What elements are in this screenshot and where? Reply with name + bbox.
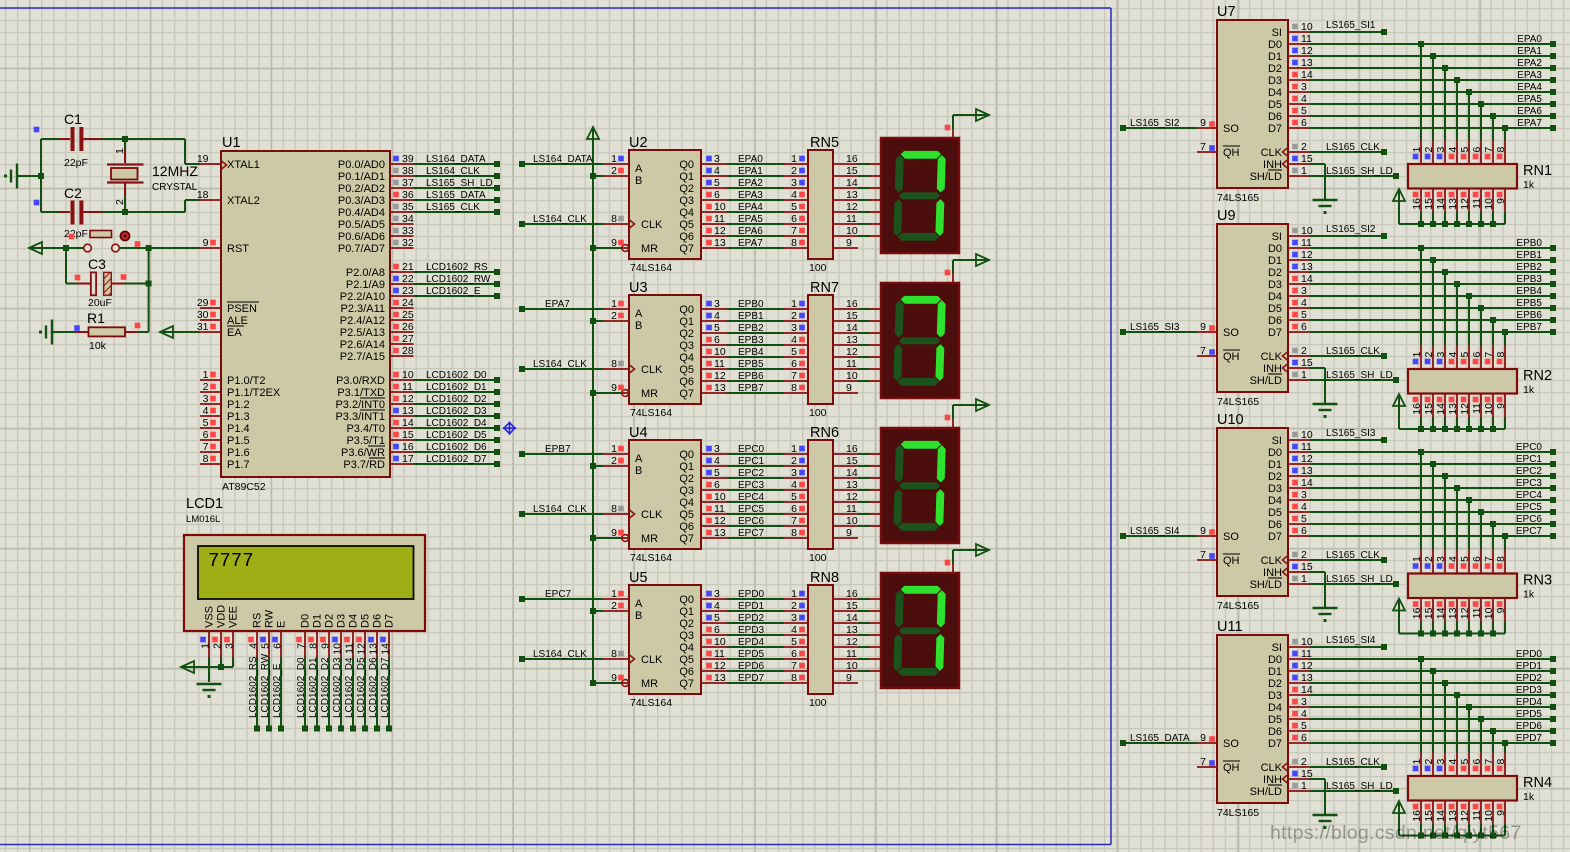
svg-text:10: 10 xyxy=(402,369,414,381)
svg-text:14: 14 xyxy=(402,417,414,429)
svg-text:10: 10 xyxy=(1483,198,1495,210)
wire U9.INH to ground xyxy=(1310,368,1325,403)
svg-text:1: 1 xyxy=(611,298,617,310)
wire net LS165_SH_LD at U11 xyxy=(1310,781,1399,794)
svg-text:4: 4 xyxy=(1301,297,1307,309)
svg-text:11: 11 xyxy=(846,213,857,225)
svg-text:11: 11 xyxy=(846,648,857,660)
svg-text:Q2: Q2 xyxy=(679,183,694,195)
svg-text:EPC6: EPC6 xyxy=(738,516,765,527)
svg-text:14: 14 xyxy=(846,177,858,189)
svg-text:EPD4: EPD4 xyxy=(738,637,765,648)
svg-text:13: 13 xyxy=(714,237,726,249)
svg-text:LCD1602_D0: LCD1602_D0 xyxy=(426,370,487,381)
wire net LS165_SI2 to U7.SO xyxy=(1120,118,1197,131)
resistor network RN7 100 xyxy=(808,280,858,419)
svg-text:EPB2: EPB2 xyxy=(1516,262,1542,273)
svg-text:P3.1/TXD: P3.1/TXD xyxy=(337,387,385,399)
svg-text:A: A xyxy=(635,453,643,465)
wire net EPA2 xyxy=(727,177,808,189)
svg-text:EPB3: EPB3 xyxy=(1516,274,1542,285)
svg-text:12: 12 xyxy=(1459,198,1471,210)
svg-text:QH: QH xyxy=(1223,762,1240,774)
svg-text:U11: U11 xyxy=(1217,619,1243,635)
wire net LS165_SI4 at U11.SI xyxy=(1310,635,1387,650)
svg-text:B: B xyxy=(635,610,642,622)
svg-text:10: 10 xyxy=(332,643,344,655)
svg-text:SO: SO xyxy=(1223,531,1239,543)
svg-text:EA: EA xyxy=(227,327,242,339)
svg-text:1k: 1k xyxy=(1523,384,1535,396)
terminal arrow (reset net) xyxy=(29,242,42,254)
svg-text:EPA3: EPA3 xyxy=(738,190,763,201)
svg-text:B: B xyxy=(635,320,642,332)
svg-text:P0.4/AD4: P0.4/AD4 xyxy=(338,207,385,219)
svg-text:P3.5/T1: P3.5/T1 xyxy=(346,435,385,447)
svg-text:AT89C52: AT89C52 xyxy=(222,481,266,493)
svg-text:74LS165: 74LS165 xyxy=(1217,600,1259,612)
svg-text:D3: D3 xyxy=(1268,483,1282,495)
svg-text:P1.4: P1.4 xyxy=(227,423,250,435)
svg-text:EPD2: EPD2 xyxy=(738,613,765,624)
svg-text:RN6: RN6 xyxy=(810,425,839,441)
wire net EPA0 xyxy=(1310,34,1556,141)
svg-text:74LS165: 74LS165 xyxy=(1217,807,1259,819)
wire net EPB5 xyxy=(1310,298,1556,346)
svg-text:RN2: RN2 xyxy=(1523,368,1552,384)
svg-text:100: 100 xyxy=(809,262,827,274)
resistor network RN8 100 xyxy=(808,570,858,709)
svg-text:LS165_SI1: LS165_SI1 xyxy=(1326,20,1376,31)
svg-text:ALE: ALE xyxy=(227,315,248,327)
wire net LS165_CLK at U7 xyxy=(1310,142,1387,155)
svg-text:CLK: CLK xyxy=(641,219,663,231)
wire net EPB0 xyxy=(727,298,808,310)
svg-text:EPC2: EPC2 xyxy=(738,468,765,479)
svg-text:LCD1602_D4: LCD1602_D4 xyxy=(426,418,487,429)
svg-text:2: 2 xyxy=(1301,756,1307,768)
7-segment display (digit 7) row U2 xyxy=(881,129,959,253)
svg-text:RN5: RN5 xyxy=(810,135,839,151)
wires RN5 to display xyxy=(858,164,881,236)
svg-text:LCD1602_RS: LCD1602_RS xyxy=(426,262,488,273)
junction bus/U2.MR xyxy=(590,245,596,251)
wire bus to U4.B xyxy=(593,465,603,467)
watermark text xyxy=(1270,822,1522,844)
svg-text:9: 9 xyxy=(1200,117,1206,129)
svg-text:Q7: Q7 xyxy=(679,678,694,690)
svg-text:1: 1 xyxy=(1301,369,1307,381)
wire net EPC0 xyxy=(727,443,808,455)
svg-text:P2.7/A15: P2.7/A15 xyxy=(340,351,385,363)
svg-text:74LS165: 74LS165 xyxy=(1217,192,1259,204)
svg-text:4: 4 xyxy=(1447,759,1459,765)
svg-text:Q7: Q7 xyxy=(679,243,694,255)
svg-text:D5: D5 xyxy=(1268,714,1282,726)
svg-text:9: 9 xyxy=(203,237,209,249)
svg-text:LS165_DATA: LS165_DATA xyxy=(1130,733,1190,744)
svg-text:EPA7: EPA7 xyxy=(1517,118,1542,129)
svg-text:EPD6: EPD6 xyxy=(738,661,765,672)
svg-text:8: 8 xyxy=(308,643,320,649)
wire net EPB7 to U4.A xyxy=(519,444,603,457)
svg-text:P1.0/T2: P1.0/T2 xyxy=(227,375,266,387)
svg-text:VDD: VDD xyxy=(216,605,228,628)
ground xyxy=(39,320,52,345)
svg-text:5: 5 xyxy=(1459,759,1471,765)
svg-text:5: 5 xyxy=(1301,513,1307,525)
wires RN8 to display xyxy=(858,599,881,671)
svg-text:EPD0: EPD0 xyxy=(738,589,765,600)
svg-text:Q6: Q6 xyxy=(679,521,694,533)
svg-text:5: 5 xyxy=(714,612,720,624)
svg-text:2: 2 xyxy=(791,310,797,322)
svg-text:100: 100 xyxy=(809,552,827,564)
svg-text:LCD1602_D1: LCD1602_D1 xyxy=(426,382,487,393)
wire net LS165_SH_LD at U1 xyxy=(414,178,501,191)
wire U11.INH to ground xyxy=(1310,779,1325,814)
svg-text:LCD1602_D2: LCD1602_D2 xyxy=(320,657,331,718)
svg-text:1: 1 xyxy=(791,588,797,600)
wire button to RST xyxy=(120,247,201,249)
svg-text:XTAL2: XTAL2 xyxy=(227,195,260,207)
svg-text:P2.4/A12: P2.4/A12 xyxy=(340,315,385,327)
ground xyxy=(4,164,17,189)
svg-text:4: 4 xyxy=(714,455,720,467)
svg-text:D7: D7 xyxy=(1268,738,1282,750)
svg-text:16: 16 xyxy=(1411,810,1423,822)
svg-text:D3: D3 xyxy=(1268,75,1282,87)
svg-text:LS165_SH_LD: LS165_SH_LD xyxy=(1326,166,1393,177)
svg-text:VSS: VSS xyxy=(204,606,216,628)
svg-text:P3.3/INT1: P3.3/INT1 xyxy=(335,411,385,423)
wire net EPC7 xyxy=(1310,526,1556,550)
svg-text:1: 1 xyxy=(791,443,797,455)
svg-text:6: 6 xyxy=(203,429,209,441)
wire net LCD1602_D1 at U1 xyxy=(414,382,501,395)
svg-text:15: 15 xyxy=(846,600,858,612)
svg-text:9: 9 xyxy=(846,382,852,394)
svg-text:7: 7 xyxy=(791,225,797,237)
svg-text:9: 9 xyxy=(1200,321,1206,333)
svg-text:2: 2 xyxy=(1423,556,1435,562)
svg-text:5: 5 xyxy=(791,636,797,648)
svg-text:16: 16 xyxy=(1411,403,1423,415)
svg-text:EPC0: EPC0 xyxy=(738,444,765,455)
svg-text:SH/LD: SH/LD xyxy=(1250,171,1282,183)
svg-text:2: 2 xyxy=(114,199,126,205)
wire net EPC2 xyxy=(727,467,808,479)
svg-text:EPD3: EPD3 xyxy=(1516,685,1543,696)
svg-text:7: 7 xyxy=(791,660,797,672)
svg-text:EPA6: EPA6 xyxy=(1517,106,1542,117)
svg-text:1: 1 xyxy=(1411,147,1423,153)
svg-text:CLK: CLK xyxy=(1261,351,1283,363)
wire net LS165_SH_LD at U7 xyxy=(1310,166,1399,179)
svg-text:VEE: VEE xyxy=(228,606,240,628)
svg-text:28: 28 xyxy=(402,345,414,357)
svg-text:17: 17 xyxy=(402,453,414,465)
svg-text:12: 12 xyxy=(846,636,858,648)
svg-text:LCD1602_D5: LCD1602_D5 xyxy=(356,657,367,718)
wire net EPC0 xyxy=(1310,442,1556,550)
svg-text:RN8: RN8 xyxy=(810,570,839,586)
svg-text:3: 3 xyxy=(1435,147,1447,153)
svg-text:24: 24 xyxy=(402,297,414,309)
svg-text:13: 13 xyxy=(846,479,858,491)
junction bus/U3.B xyxy=(590,318,596,324)
svg-text:EPA3: EPA3 xyxy=(1517,70,1542,81)
wire net LCD1602_D4 at U1 xyxy=(414,418,501,431)
junction bus/U2.B xyxy=(590,173,596,179)
svg-text:1: 1 xyxy=(1411,759,1423,765)
wire net LCD1602_RW at U1 xyxy=(414,274,501,287)
wire net EPD2 xyxy=(727,612,808,624)
svg-text:EPB5: EPB5 xyxy=(738,359,764,370)
wire net EPD3 xyxy=(727,624,808,636)
terminal arrow (RN rail) xyxy=(1393,801,1405,815)
svg-text:U7: U7 xyxy=(1217,4,1236,20)
svg-text:CLK: CLK xyxy=(1261,555,1283,567)
wire net LS165_CLK at U11 xyxy=(1310,757,1387,770)
svg-text:LS165_CLK: LS165_CLK xyxy=(426,202,480,213)
svg-text:EPB0: EPB0 xyxy=(1516,238,1542,249)
svg-text:EPD5: EPD5 xyxy=(738,649,765,660)
svg-text:12: 12 xyxy=(714,660,726,672)
wire net LS165_SI4 to U10.SO xyxy=(1120,526,1197,539)
svg-text:PSEN: PSEN xyxy=(227,303,257,315)
junction crystal bottom node xyxy=(122,209,128,215)
svg-text:LS164_DATA: LS164_DATA xyxy=(533,154,593,165)
svg-text:EPA1: EPA1 xyxy=(1517,46,1542,57)
svg-text:11: 11 xyxy=(714,358,725,370)
svg-text:EPA0: EPA0 xyxy=(1517,34,1542,45)
svg-text:RN1: RN1 xyxy=(1523,163,1552,179)
svg-text:Q5: Q5 xyxy=(679,219,694,231)
wire net EPA6 xyxy=(727,225,808,237)
wire bus to U5.B xyxy=(593,610,603,612)
wire net EPC6 xyxy=(1310,514,1556,550)
wire net EPC3 xyxy=(727,479,808,491)
svg-text:2: 2 xyxy=(1301,141,1307,153)
IC U4 74LS164 shift register xyxy=(603,425,727,564)
wire RN3 bottom rail xyxy=(1399,610,1505,637)
svg-text:23: 23 xyxy=(402,285,414,297)
wire net EPA7 xyxy=(727,237,808,249)
svg-text:Q2: Q2 xyxy=(679,328,694,340)
svg-text:5: 5 xyxy=(260,643,272,649)
wire net EPD6 xyxy=(1310,721,1556,753)
svg-text:15: 15 xyxy=(846,310,858,322)
wire net LCD1602_RS at LCD xyxy=(248,656,260,732)
svg-text:P1.7: P1.7 xyxy=(227,459,250,471)
svg-text:34: 34 xyxy=(402,213,414,225)
svg-text:RN7: RN7 xyxy=(810,280,839,296)
svg-text:12: 12 xyxy=(846,491,858,503)
wire net EPD1 xyxy=(727,600,808,612)
svg-text:EPD1: EPD1 xyxy=(738,601,765,612)
svg-text:27: 27 xyxy=(402,333,414,345)
wire bus to U2.B xyxy=(593,175,603,177)
svg-text:MR: MR xyxy=(641,243,658,255)
svg-text:LS165_SH_LD: LS165_SH_LD xyxy=(426,178,493,189)
ground xyxy=(1313,404,1338,418)
svg-text:EPB7: EPB7 xyxy=(738,383,764,394)
wire net LS165_CLK at U10 xyxy=(1310,550,1387,563)
wire U10.INH to ground xyxy=(1310,572,1325,607)
svg-text:11: 11 xyxy=(344,643,356,654)
svg-text:2: 2 xyxy=(791,455,797,467)
svg-text:LCD1602_E: LCD1602_E xyxy=(426,286,481,297)
svg-text:16: 16 xyxy=(402,441,414,453)
svg-text:Q6: Q6 xyxy=(679,376,694,388)
svg-text:Q0: Q0 xyxy=(679,449,694,461)
svg-text:10: 10 xyxy=(714,491,726,503)
terminal arrow (RN rail) xyxy=(1393,599,1405,613)
wire net LS164_CLK to U5.CLK xyxy=(519,649,603,662)
svg-text:4: 4 xyxy=(791,479,797,491)
svg-text:LCD1602_D6: LCD1602_D6 xyxy=(426,442,487,453)
wire net EPC6 xyxy=(727,515,808,527)
svg-text:36: 36 xyxy=(402,189,414,201)
svg-text:EPD2: EPD2 xyxy=(1516,673,1543,684)
svg-text:D5: D5 xyxy=(1268,303,1282,315)
wire net EPB1 xyxy=(727,310,808,322)
svg-text:2: 2 xyxy=(611,455,617,467)
svg-text:Q1: Q1 xyxy=(679,461,694,473)
svg-text:22pF: 22pF xyxy=(64,228,88,240)
svg-text:6: 6 xyxy=(714,189,720,201)
wire net EPA5 xyxy=(727,213,808,225)
svg-text:D0: D0 xyxy=(1268,39,1282,51)
svg-text:LCD1602_D5: LCD1602_D5 xyxy=(426,430,487,441)
svg-text:3: 3 xyxy=(791,177,797,189)
svg-text:INH: INH xyxy=(1263,567,1282,579)
ground xyxy=(197,684,222,698)
svg-text:E: E xyxy=(276,621,288,628)
svg-text:A: A xyxy=(635,163,643,175)
svg-text:U9: U9 xyxy=(1217,208,1236,224)
svg-text:EPC7: EPC7 xyxy=(738,528,765,539)
svg-text:7: 7 xyxy=(791,515,797,527)
svg-text:10: 10 xyxy=(846,370,858,382)
svg-text:LS165_CLK: LS165_CLK xyxy=(1326,757,1380,768)
IC U1 AT89C52 microcontroller xyxy=(197,135,414,493)
7-segment display (digit 7) row U3 xyxy=(881,274,959,398)
wire net EPA7 xyxy=(1310,118,1556,141)
capacitor C1 xyxy=(34,111,101,169)
wire net EPB2 xyxy=(1310,262,1556,346)
junction crystal top node xyxy=(122,136,128,142)
svg-text:C3: C3 xyxy=(88,256,106,272)
svg-text:12: 12 xyxy=(402,393,414,405)
svg-text:16: 16 xyxy=(846,588,858,600)
svg-text:13: 13 xyxy=(846,189,858,201)
wire C2 to crystal bottom node xyxy=(101,211,185,213)
svg-text:74LS165: 74LS165 xyxy=(1217,396,1259,408)
svg-text:12: 12 xyxy=(714,370,726,382)
svg-text:15: 15 xyxy=(1423,403,1435,415)
svg-text:6: 6 xyxy=(1301,525,1307,537)
svg-text:16: 16 xyxy=(846,153,858,165)
wire net LS164_CLK at U1 xyxy=(414,166,501,179)
svg-text:8: 8 xyxy=(611,213,617,225)
svg-text:12: 12 xyxy=(1459,403,1471,415)
svg-text:EPB3: EPB3 xyxy=(738,335,764,346)
svg-text:EPB7: EPB7 xyxy=(545,444,571,455)
svg-text:D6: D6 xyxy=(1268,315,1282,327)
svg-text:10: 10 xyxy=(1483,810,1495,822)
capacitor C3 (electrolytic) xyxy=(66,256,149,309)
svg-text:7: 7 xyxy=(1483,147,1495,153)
svg-text:LS165_SH_LD: LS165_SH_LD xyxy=(1326,370,1393,381)
svg-text:D2: D2 xyxy=(1268,63,1282,75)
svg-text:14: 14 xyxy=(846,467,858,479)
wire U7.INH to ground xyxy=(1310,164,1325,199)
svg-text:EPC0: EPC0 xyxy=(1516,442,1543,453)
svg-text:INH: INH xyxy=(1263,159,1282,171)
svg-text:13: 13 xyxy=(846,624,858,636)
wire net EPC2 xyxy=(1310,466,1556,550)
svg-text:15: 15 xyxy=(846,165,858,177)
wire net EPA4 xyxy=(727,201,808,213)
svg-text:D7: D7 xyxy=(384,614,396,628)
svg-text:D4: D4 xyxy=(1268,87,1282,99)
svg-text:5: 5 xyxy=(1301,309,1307,321)
wire net EPB5 xyxy=(727,358,808,370)
svg-text:Q5: Q5 xyxy=(679,364,694,376)
svg-text:LCD1602_RS: LCD1602_RS xyxy=(248,656,259,718)
svg-text:12: 12 xyxy=(1459,810,1471,822)
svg-text:4: 4 xyxy=(791,624,797,636)
svg-text:1: 1 xyxy=(203,369,209,381)
wire net EPC7 xyxy=(727,527,808,539)
svg-text:D5: D5 xyxy=(360,614,372,628)
wire net LS165_SI3 to U9.SO xyxy=(1120,322,1197,335)
svg-text:D3: D3 xyxy=(336,614,348,628)
terminal arrow (display common) xyxy=(945,109,989,130)
wire net LS165_CLK at U9 xyxy=(1310,346,1387,359)
svg-text:21: 21 xyxy=(402,261,414,273)
svg-text:12: 12 xyxy=(846,346,858,358)
svg-text:EPC6: EPC6 xyxy=(1516,514,1543,525)
svg-text:A: A xyxy=(635,308,643,320)
svg-text:26: 26 xyxy=(402,321,414,333)
svg-text:11: 11 xyxy=(714,648,725,660)
svg-text:LCD1602_D1: LCD1602_D1 xyxy=(308,657,319,718)
wires RN7 to display xyxy=(858,309,881,381)
svg-text:13: 13 xyxy=(714,527,726,539)
wire net EPD6 xyxy=(727,660,808,672)
wire net EPD0 xyxy=(727,588,808,600)
svg-text:D5: D5 xyxy=(1268,507,1282,519)
svg-text:8: 8 xyxy=(611,648,617,660)
svg-text:P3.2/INT0: P3.2/INT0 xyxy=(335,399,385,411)
svg-text:7: 7 xyxy=(1200,345,1206,357)
wire net LCD1602_D4 at LCD xyxy=(344,657,356,732)
svg-text:D2: D2 xyxy=(324,614,336,628)
svg-text:P0.7/AD7: P0.7/AD7 xyxy=(338,243,385,255)
svg-text:LS165_SH_LD: LS165_SH_LD xyxy=(1326,781,1393,792)
svg-text:7777: 7777 xyxy=(208,550,254,572)
svg-text:LCD1602_E: LCD1602_E xyxy=(272,663,283,718)
wire net LS165_SH_LD at U10 xyxy=(1310,574,1399,587)
terminal arrow (display common) xyxy=(945,399,989,420)
svg-text:QH: QH xyxy=(1223,555,1240,567)
wire net EPB1 xyxy=(1310,250,1556,346)
svg-text:EPB7: EPB7 xyxy=(1516,322,1542,333)
svg-text:4: 4 xyxy=(1301,708,1307,720)
